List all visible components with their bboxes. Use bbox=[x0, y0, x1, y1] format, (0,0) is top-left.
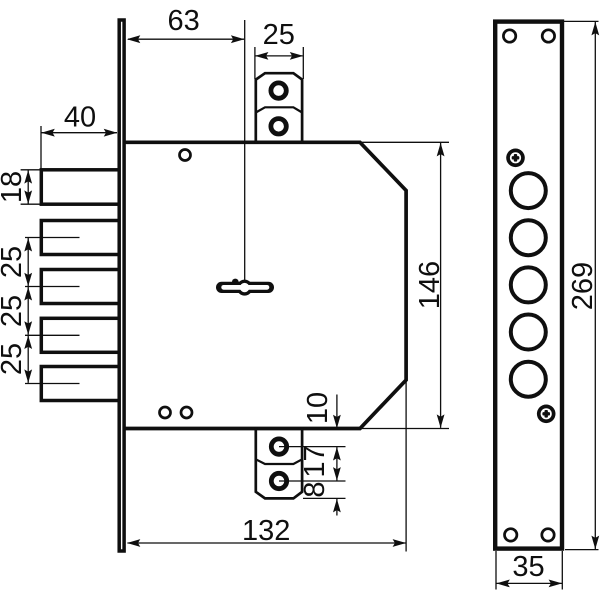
bracket hole extension lines bbox=[279, 446, 346, 448]
dim 17 bbox=[336, 447, 338, 480]
svg-text:35: 35 bbox=[512, 551, 544, 583]
cylinder hole 1 bbox=[511, 173, 546, 208]
svg-text:25: 25 bbox=[0, 343, 28, 375]
deadbolt B3 bbox=[41, 270, 119, 304]
deadbolt B2 bbox=[41, 221, 119, 255]
svg-text:17: 17 bbox=[299, 445, 331, 477]
deadbolt B1 bbox=[41, 170, 119, 204]
svg-text:146: 146 bbox=[414, 261, 446, 309]
deadbolt B5 bbox=[41, 367, 119, 401]
phillips screw top bbox=[506, 149, 525, 168]
dim 25 left c bbox=[27, 336, 29, 383]
cylinder hole 4 bbox=[511, 315, 546, 350]
dim 25 top bbox=[254, 47, 256, 79]
svg-text:25: 25 bbox=[0, 295, 28, 327]
dim 10 bbox=[336, 395, 338, 428]
screw hole top left bbox=[503, 30, 515, 42]
screw hole top right bbox=[542, 30, 554, 42]
case holes bottom bbox=[160, 407, 171, 418]
bottom bracket outline bbox=[256, 427, 302, 498]
top bracket outline bbox=[256, 73, 302, 144]
deadbolt B4 bbox=[41, 318, 119, 352]
dim 35 bbox=[495, 551, 497, 590]
dim 146 bbox=[360, 141, 449, 143]
dim 8 bbox=[336, 499, 338, 516]
faceplate side view bbox=[119, 20, 124, 551]
cylinder hole 3 bbox=[511, 267, 546, 302]
svg-text:18: 18 bbox=[0, 171, 28, 203]
svg-text:10: 10 bbox=[302, 392, 334, 424]
dim 269 bbox=[564, 20, 599, 22]
dim 18 bbox=[21, 169, 42, 171]
dim 40 bbox=[40, 126, 42, 169]
screw hole bottom left bbox=[505, 529, 517, 541]
dim 132 bbox=[405, 380, 407, 552]
cylinder hole 2 bbox=[511, 220, 546, 255]
dim 63 bbox=[128, 38, 244, 40]
svg-text:25: 25 bbox=[0, 246, 28, 278]
svg-text:132: 132 bbox=[242, 515, 290, 547]
centerline through keyhole bbox=[244, 20, 246, 290]
svg-text:8: 8 bbox=[299, 481, 331, 497]
keyhole bbox=[216, 279, 274, 296]
dim 25 left b bbox=[27, 287, 29, 335]
svg-text:40: 40 bbox=[64, 102, 96, 134]
phillips screw bottom bbox=[537, 405, 556, 424]
cylinder hole 5 bbox=[511, 362, 546, 397]
faceplate front view bbox=[495, 22, 562, 549]
bottom bracket hole 1 bbox=[271, 439, 286, 454]
bolt centerlines bbox=[25, 237, 80, 239]
dim 25 left a bbox=[27, 238, 29, 286]
top bracket hole 2 bbox=[271, 119, 286, 134]
bottom bracket waist bbox=[256, 459, 302, 464]
svg-text:63: 63 bbox=[167, 5, 199, 37]
case hole top bbox=[180, 150, 191, 161]
top bracket hole 1 bbox=[271, 83, 286, 98]
svg-text:25: 25 bbox=[263, 19, 295, 51]
bottom bracket hole 2 bbox=[271, 473, 286, 488]
top bracket waist bbox=[256, 107, 302, 112]
lock case outline bbox=[125, 142, 406, 428]
screw hole bottom right bbox=[542, 529, 554, 541]
svg-text:269: 269 bbox=[567, 262, 599, 310]
